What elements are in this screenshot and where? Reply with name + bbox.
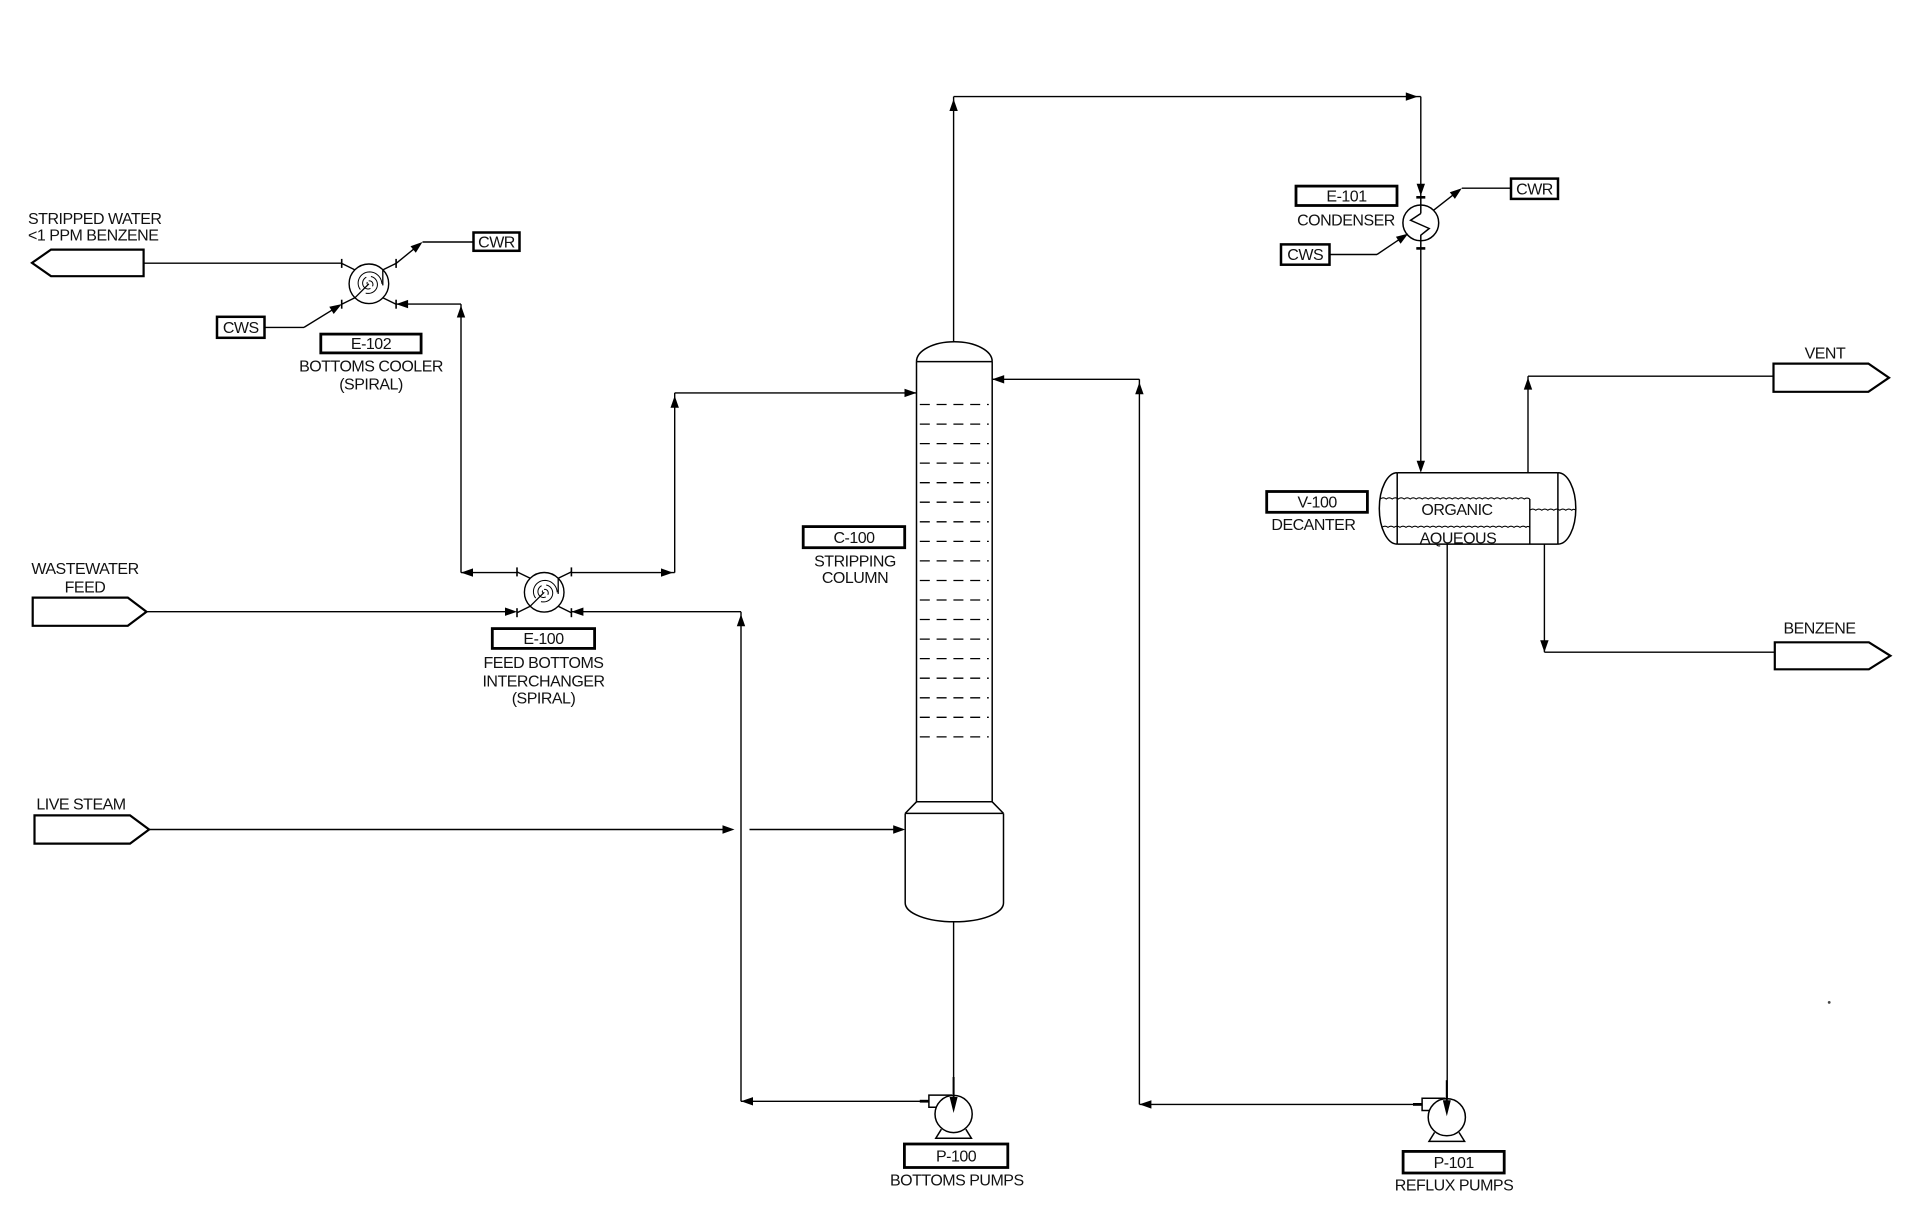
svg-text:CWR: CWR: [1516, 181, 1553, 198]
svg-text:INTERCHANGER: INTERCHANGER: [482, 673, 604, 690]
wire condensate from E-101 to decanter V-100: [1417, 248, 1425, 472]
label box P-100: [904, 1144, 1007, 1168]
wire live steam to column: [149, 825, 905, 833]
svg-text:STRIPPING: STRIPPING: [814, 554, 896, 571]
svg-text:STRIPPED WATER: STRIPPED WATER: [28, 211, 161, 228]
label box E-101: [1296, 186, 1397, 205]
wire overhead vapour to condenser E-101: [949, 92, 1425, 341]
wire wastewater feed to E-100: [147, 608, 518, 616]
label DECANTER: [1271, 517, 1355, 534]
wire aqueous phase from decanter to pump P-101: [1446, 544, 1448, 1101]
off-page flag WASTEWATER FEED: [33, 598, 147, 626]
label REFLUX PUMPS: [1395, 1178, 1513, 1195]
label box CWS (to E-101): [1281, 244, 1330, 264]
label FEED BOTTOMS INTERCHANGER (SPIRAL): [482, 655, 604, 707]
svg-text:(SPIRAL): (SPIRAL): [339, 376, 403, 393]
wire benzene product from decanter: [1540, 544, 1775, 652]
svg-text:FEED: FEED: [65, 580, 106, 597]
svg-text:E-101: E-101: [1326, 189, 1367, 206]
wire P-100 discharge to riser: [741, 1097, 929, 1105]
svg-text:REFLUX PUMPS: REFLUX PUMPS: [1395, 1178, 1513, 1195]
decanter vessel V-100: [1379, 473, 1576, 544]
label WASTEWATER FEED: [31, 561, 138, 596]
pump P-100 (centrifugal): [920, 1077, 972, 1138]
svg-text:DECANTER: DECANTER: [1271, 517, 1355, 534]
svg-text:BOTTOMS PUMPS: BOTTOMS PUMPS: [890, 1173, 1024, 1190]
svg-text:AQUEOUS: AQUEOUS: [1420, 531, 1497, 548]
svg-text:BENZENE: BENZENE: [1783, 621, 1855, 638]
off-page flag BENZENE: [1775, 642, 1891, 669]
wire CWS to E-102: [265, 304, 342, 327]
label ORGANIC: [1421, 502, 1492, 519]
svg-text:(SPIRAL): (SPIRAL): [512, 691, 576, 708]
svg-text:FEED BOTTOMS: FEED BOTTOMS: [484, 655, 604, 672]
svg-text:P-100: P-100: [936, 1149, 977, 1166]
off-page flag LIVE STEAM: [35, 815, 150, 843]
wire pumped bottoms to E-100: [571, 608, 745, 1102]
svg-text:COLUMN: COLUMN: [822, 570, 888, 587]
wire E-102 to CWR: [396, 242, 473, 263]
label AQUEOUS: [1420, 531, 1497, 548]
wire hot bottoms riser from E-100 to E-102: [396, 300, 517, 577]
svg-text:WASTEWATER: WASTEWATER: [31, 561, 138, 578]
svg-text:E-102: E-102: [351, 336, 392, 353]
column C-100 stripping column: [905, 342, 1003, 922]
svg-text:CWS: CWS: [223, 320, 259, 337]
label STRIPPING COLUMN: [814, 554, 896, 587]
wire P-101 discharge reflux riser to column top: [992, 375, 1422, 1109]
label CONDENSER: [1297, 213, 1395, 230]
label VENT: [1805, 346, 1846, 363]
svg-text:<1 PPM BENZENE: <1 PPM BENZENE: [28, 227, 158, 244]
svg-text:V-100: V-100: [1297, 495, 1337, 512]
label box CWR (from E-101): [1511, 179, 1558, 199]
heat exchanger E-100 (spiral): [517, 567, 571, 617]
label box E-100: [492, 629, 594, 649]
label box V-100: [1267, 492, 1368, 513]
label box P-101: [1403, 1151, 1504, 1173]
svg-text:LIVE STEAM: LIVE STEAM: [36, 797, 125, 814]
wire preheated feed from E-100 to column C-100: [571, 389, 916, 577]
label box E-102: [321, 334, 421, 353]
svg-text:VENT: VENT: [1805, 346, 1846, 363]
label BENZENE: [1783, 621, 1855, 638]
svg-text:E-100: E-100: [523, 631, 564, 648]
wire CWS to E-101: [1330, 234, 1409, 255]
wire E-101 to CWR: [1434, 188, 1512, 210]
condenser E-101: [1403, 197, 1439, 248]
svg-text:P-101: P-101: [1434, 1155, 1475, 1172]
heat exchanger E-102 (spiral): [342, 259, 396, 309]
svg-text:BOTTOMS COOLER: BOTTOMS COOLER: [299, 359, 443, 376]
label BOTTOMS PUMPS: [890, 1173, 1024, 1190]
svg-text:C-100: C-100: [833, 530, 875, 547]
label box C-100: [803, 527, 905, 548]
off-page flag STRIPPED WATER: [32, 250, 144, 277]
wire stripped water outlet from E-102: [144, 262, 342, 264]
label STRIPPED WATER <1 PPM BENZENE: [28, 211, 161, 244]
label BOTTOMS COOLER (SPIRAL): [299, 359, 443, 394]
svg-text:ORGANIC: ORGANIC: [1421, 502, 1492, 519]
wire column bottoms to pump P-100: [953, 922, 955, 1098]
svg-text:CWS: CWS: [1287, 247, 1323, 264]
svg-text:CONDENSER: CONDENSER: [1297, 213, 1395, 230]
wire vent from decanter: [1524, 376, 1774, 473]
svg-text:CWR: CWR: [478, 234, 515, 251]
label box CWS (to E-102): [217, 317, 265, 338]
label LIVE STEAM: [36, 797, 125, 814]
pump P-101 (centrifugal): [1413, 1080, 1465, 1141]
off-page flag VENT: [1774, 364, 1890, 392]
label box CWR (from E-102): [474, 233, 520, 252]
